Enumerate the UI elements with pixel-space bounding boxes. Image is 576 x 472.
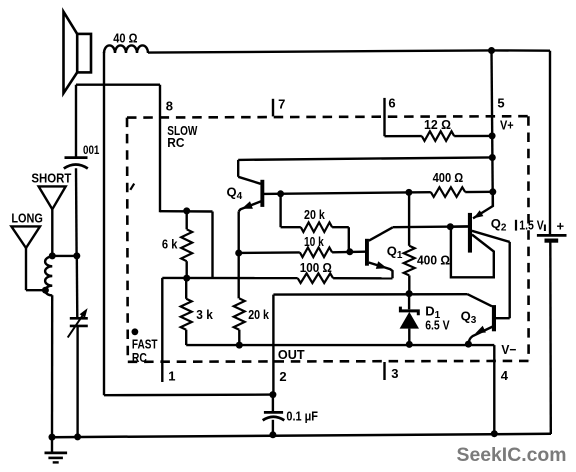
svg-text:1: 1 [168, 368, 175, 383]
svg-text:20 k: 20 k [304, 207, 325, 222]
svg-text:FAST: FAST [132, 337, 158, 351]
svg-text:LONG: LONG [11, 211, 43, 225]
svg-text:7: 7 [278, 96, 285, 111]
svg-text:10 k: 10 k [304, 234, 324, 249]
svg-text:400 Ω: 400 Ω [433, 171, 464, 185]
svg-text:40 Ω: 40 Ω [113, 31, 137, 46]
svg-text:1.5 V: 1.5 V [519, 218, 544, 233]
svg-text:OUT: OUT [278, 348, 305, 362]
svg-text:0.1 μF: 0.1 μF [286, 410, 318, 424]
svg-text:3: 3 [391, 366, 398, 381]
svg-text:5: 5 [497, 95, 504, 110]
svg-text:SHORT: SHORT [31, 171, 71, 185]
svg-text:001: 001 [83, 143, 100, 157]
svg-text:12 Ω: 12 Ω [424, 118, 451, 132]
svg-text:3 k: 3 k [196, 307, 213, 322]
svg-text:6: 6 [388, 96, 395, 111]
svg-text:100 Ω: 100 Ω [300, 261, 332, 275]
svg-text:8: 8 [166, 99, 173, 114]
svg-text:V+: V+ [500, 118, 514, 133]
svg-text:4: 4 [501, 368, 509, 383]
svg-text:400 Ω: 400 Ω [417, 254, 450, 268]
svg-text:V−: V− [501, 342, 516, 357]
svg-text:20 k: 20 k [248, 307, 269, 322]
svg-text:6.5 V: 6.5 V [425, 319, 450, 333]
svg-text:6 k: 6 k [162, 237, 178, 252]
svg-text:+: + [557, 219, 565, 234]
svg-text:2: 2 [279, 369, 286, 384]
svg-text:RC: RC [167, 136, 184, 150]
svg-text:RC: RC [132, 351, 147, 365]
svg-text:SeekIC.com: SeekIC.com [457, 445, 567, 466]
